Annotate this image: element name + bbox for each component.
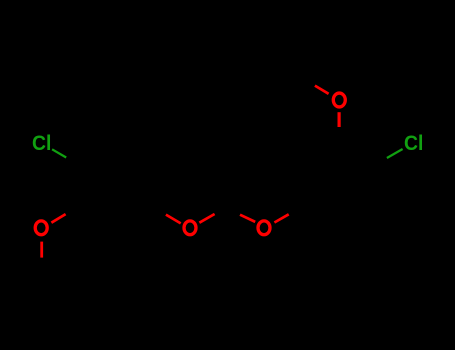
left benzene ring (black on black): [80, 146, 149, 226]
bond O3-CH2 stub (red half): [240, 215, 255, 222]
atom label O2 (acetal oxygen left): [184, 221, 196, 235]
bond O1-ring stub (red half): [51, 214, 65, 223]
bond O1-CH3 (black half): [40, 258, 43, 274]
bond O1-ring (black half): [66, 206, 80, 215]
svg-text:Cl: Cl: [32, 131, 51, 155]
svg-text:Cl: Cl: [404, 131, 423, 155]
bond C-Cl right (black half): [371, 158, 387, 167]
bond C-Cl left (black half): [66, 158, 80, 166]
atom label O4 (right methoxy oxygen): [333, 93, 345, 107]
bond O2-ring (black half): [151, 206, 166, 215]
atom label O1 (left methoxy oxygen): [35, 221, 47, 235]
bond O3-ring (black half): [289, 206, 303, 214]
bond O4-CH3 stub (red half): [315, 86, 329, 94]
atom label O3 (acetal oxygen right): [258, 221, 270, 235]
bond Cl2 stub (green half): [387, 149, 403, 158]
bond O2-CH2 stub (red half): [199, 214, 214, 223]
bond Cl1 stub (green half): [52, 149, 66, 157]
bond O4-ring stub (red half): [338, 112, 341, 127]
central CH2 bonds (black halves): [215, 206, 240, 215]
right benzene ring (black on black): [295, 142, 371, 223]
bond O3-ring stub (red half): [274, 214, 288, 222]
bond O4-ring (black half): [338, 127, 341, 142]
bond O2-ring stub (red half): [166, 215, 181, 224]
bond O1-CH3 stub (red half): [40, 242, 43, 258]
bond O4-CH3 (black half): [300, 76, 315, 86]
